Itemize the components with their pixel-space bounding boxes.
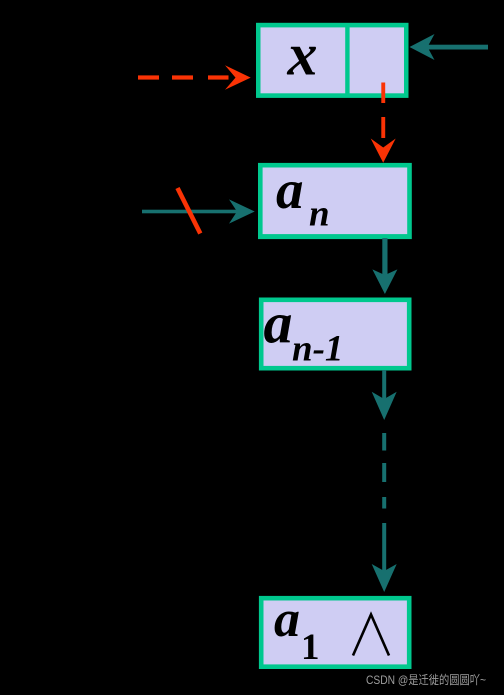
svg-text:1: 1 [301,627,320,668]
svg-text:a: a [264,291,293,356]
svg-text:CSDN @是迁徙的圆圆吖~: CSDN @是迁徙的圆圆吖~ [366,672,486,687]
svg-text:x: x [287,22,318,88]
svg-text:n: n [309,194,330,235]
svg-text:n-1: n-1 [292,329,343,370]
svg-text:a: a [276,159,304,220]
svg-text:a: a [274,591,300,648]
